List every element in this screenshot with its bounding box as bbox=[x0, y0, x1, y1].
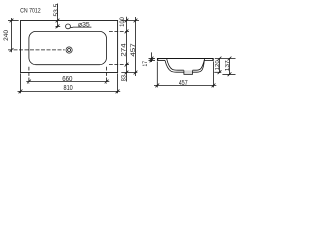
tick chain at top edge bbox=[125, 19, 129, 23]
svg-text:274: 274 bbox=[121, 43, 128, 57]
svg-text:83: 83 bbox=[120, 75, 127, 82]
extension line 17 bottom bbox=[149, 59, 156, 61]
extension line inner bottom edge (dashed) bbox=[109, 64, 129, 66]
bowl inner wall left (section) bbox=[167, 59, 184, 71]
svg-text:53.5: 53.5 bbox=[53, 3, 60, 16]
extension line section 457 right bbox=[213, 61, 215, 87]
leader line for hole diameter bbox=[70, 26, 91, 29]
tick 240 bottom bbox=[10, 48, 14, 52]
tick chain at inner top bbox=[125, 30, 129, 34]
tick 137 bottom bbox=[228, 72, 232, 76]
basin outer outline (plan view) bbox=[21, 21, 118, 73]
extension line 810 right bbox=[117, 73, 119, 93]
section rim underside right bbox=[204, 59, 213, 61]
svg-text:100: 100 bbox=[119, 17, 126, 27]
dimension 240 line bbox=[11, 18, 13, 52]
extension line 660 left (dashed) bbox=[28, 67, 30, 84]
bowl outer wall right (section) bbox=[192, 60, 204, 72]
tick chain at inner bottom bbox=[125, 63, 129, 67]
extension line rim top right bbox=[215, 58, 236, 60]
tick 660 right bbox=[105, 80, 109, 84]
svg-text:⌀35: ⌀35 bbox=[78, 21, 90, 28]
tick 53.5 at top edge bbox=[56, 19, 60, 23]
svg-text:457: 457 bbox=[130, 43, 137, 57]
tick 810 left bbox=[19, 90, 23, 94]
tick chain at bottom edge bbox=[125, 71, 129, 75]
tick 137 top bbox=[228, 57, 232, 61]
section rim right end cap bbox=[212, 58, 214, 61]
section rim left end cap bbox=[157, 58, 159, 61]
extension line top-left corner bbox=[8, 20, 19, 22]
svg-text:137: 137 bbox=[225, 60, 231, 71]
dimension chain line 100-274-83 bbox=[126, 17, 128, 82]
tick 17 bottom bbox=[150, 59, 154, 63]
faucet hole bbox=[66, 24, 71, 29]
extension tick at hole center bbox=[56, 25, 61, 27]
tick 120 top bbox=[218, 57, 222, 61]
section rim underside left bbox=[157, 59, 165, 61]
dimension 137 line bbox=[229, 59, 231, 76]
drain boss (section) bbox=[184, 70, 193, 74]
tick section 457 right bbox=[212, 84, 216, 88]
extension line bottom edge right bbox=[121, 72, 137, 74]
dimension 53.5 line bbox=[57, 4, 59, 28]
bowl outer wall left (section) bbox=[165, 60, 184, 72]
tick 53.5 at hole center bbox=[56, 25, 60, 29]
svg-text:17: 17 bbox=[142, 61, 149, 67]
tick 660 left bbox=[27, 80, 31, 84]
tick section 457 left bbox=[155, 84, 159, 88]
drain hole outer circle bbox=[66, 47, 72, 53]
tick 457 top bbox=[134, 19, 138, 23]
svg-text:CN 7012: CN 7012 bbox=[20, 8, 41, 15]
basin inner bowl outline (plan view) bbox=[29, 31, 107, 64]
svg-text:120: 120 bbox=[215, 60, 221, 70]
extension line 120 bottom bbox=[214, 71, 221, 73]
extension line 17 top bbox=[149, 58, 156, 60]
svg-text:240: 240 bbox=[3, 29, 10, 40]
extension line 137 bottom bbox=[222, 73, 235, 75]
extension line inner top edge (dashed) bbox=[109, 30, 129, 32]
dimension 120 line bbox=[219, 59, 221, 73]
tick 457 bottom bbox=[134, 71, 138, 75]
dimension 810 line bbox=[18, 90, 121, 92]
tick 810 right bbox=[116, 90, 120, 94]
extension line top edge right bbox=[122, 20, 140, 22]
tick 120 bottom bbox=[218, 70, 222, 74]
extension line 810 left bbox=[20, 73, 22, 93]
dimension 457 line (plan) bbox=[135, 17, 137, 76]
svg-text:810: 810 bbox=[64, 83, 73, 92]
extension line section 457 left bbox=[156, 61, 158, 87]
bowl inner wall right (section) bbox=[193, 59, 205, 71]
dimension 17 line bbox=[151, 52, 153, 62]
extension line 660 right (dashed) bbox=[106, 67, 108, 84]
svg-text:660: 660 bbox=[62, 74, 72, 83]
centerline through drain left part (dashed) bbox=[8, 49, 65, 51]
tick 240 top bbox=[10, 19, 14, 23]
dimension 660 line bbox=[26, 81, 109, 83]
svg-text:457: 457 bbox=[179, 80, 188, 87]
drain hole inner circle bbox=[68, 49, 71, 52]
tick 17 top bbox=[150, 57, 154, 61]
section rim top surface bbox=[157, 58, 213, 60]
dimension 457 section line bbox=[154, 84, 216, 86]
